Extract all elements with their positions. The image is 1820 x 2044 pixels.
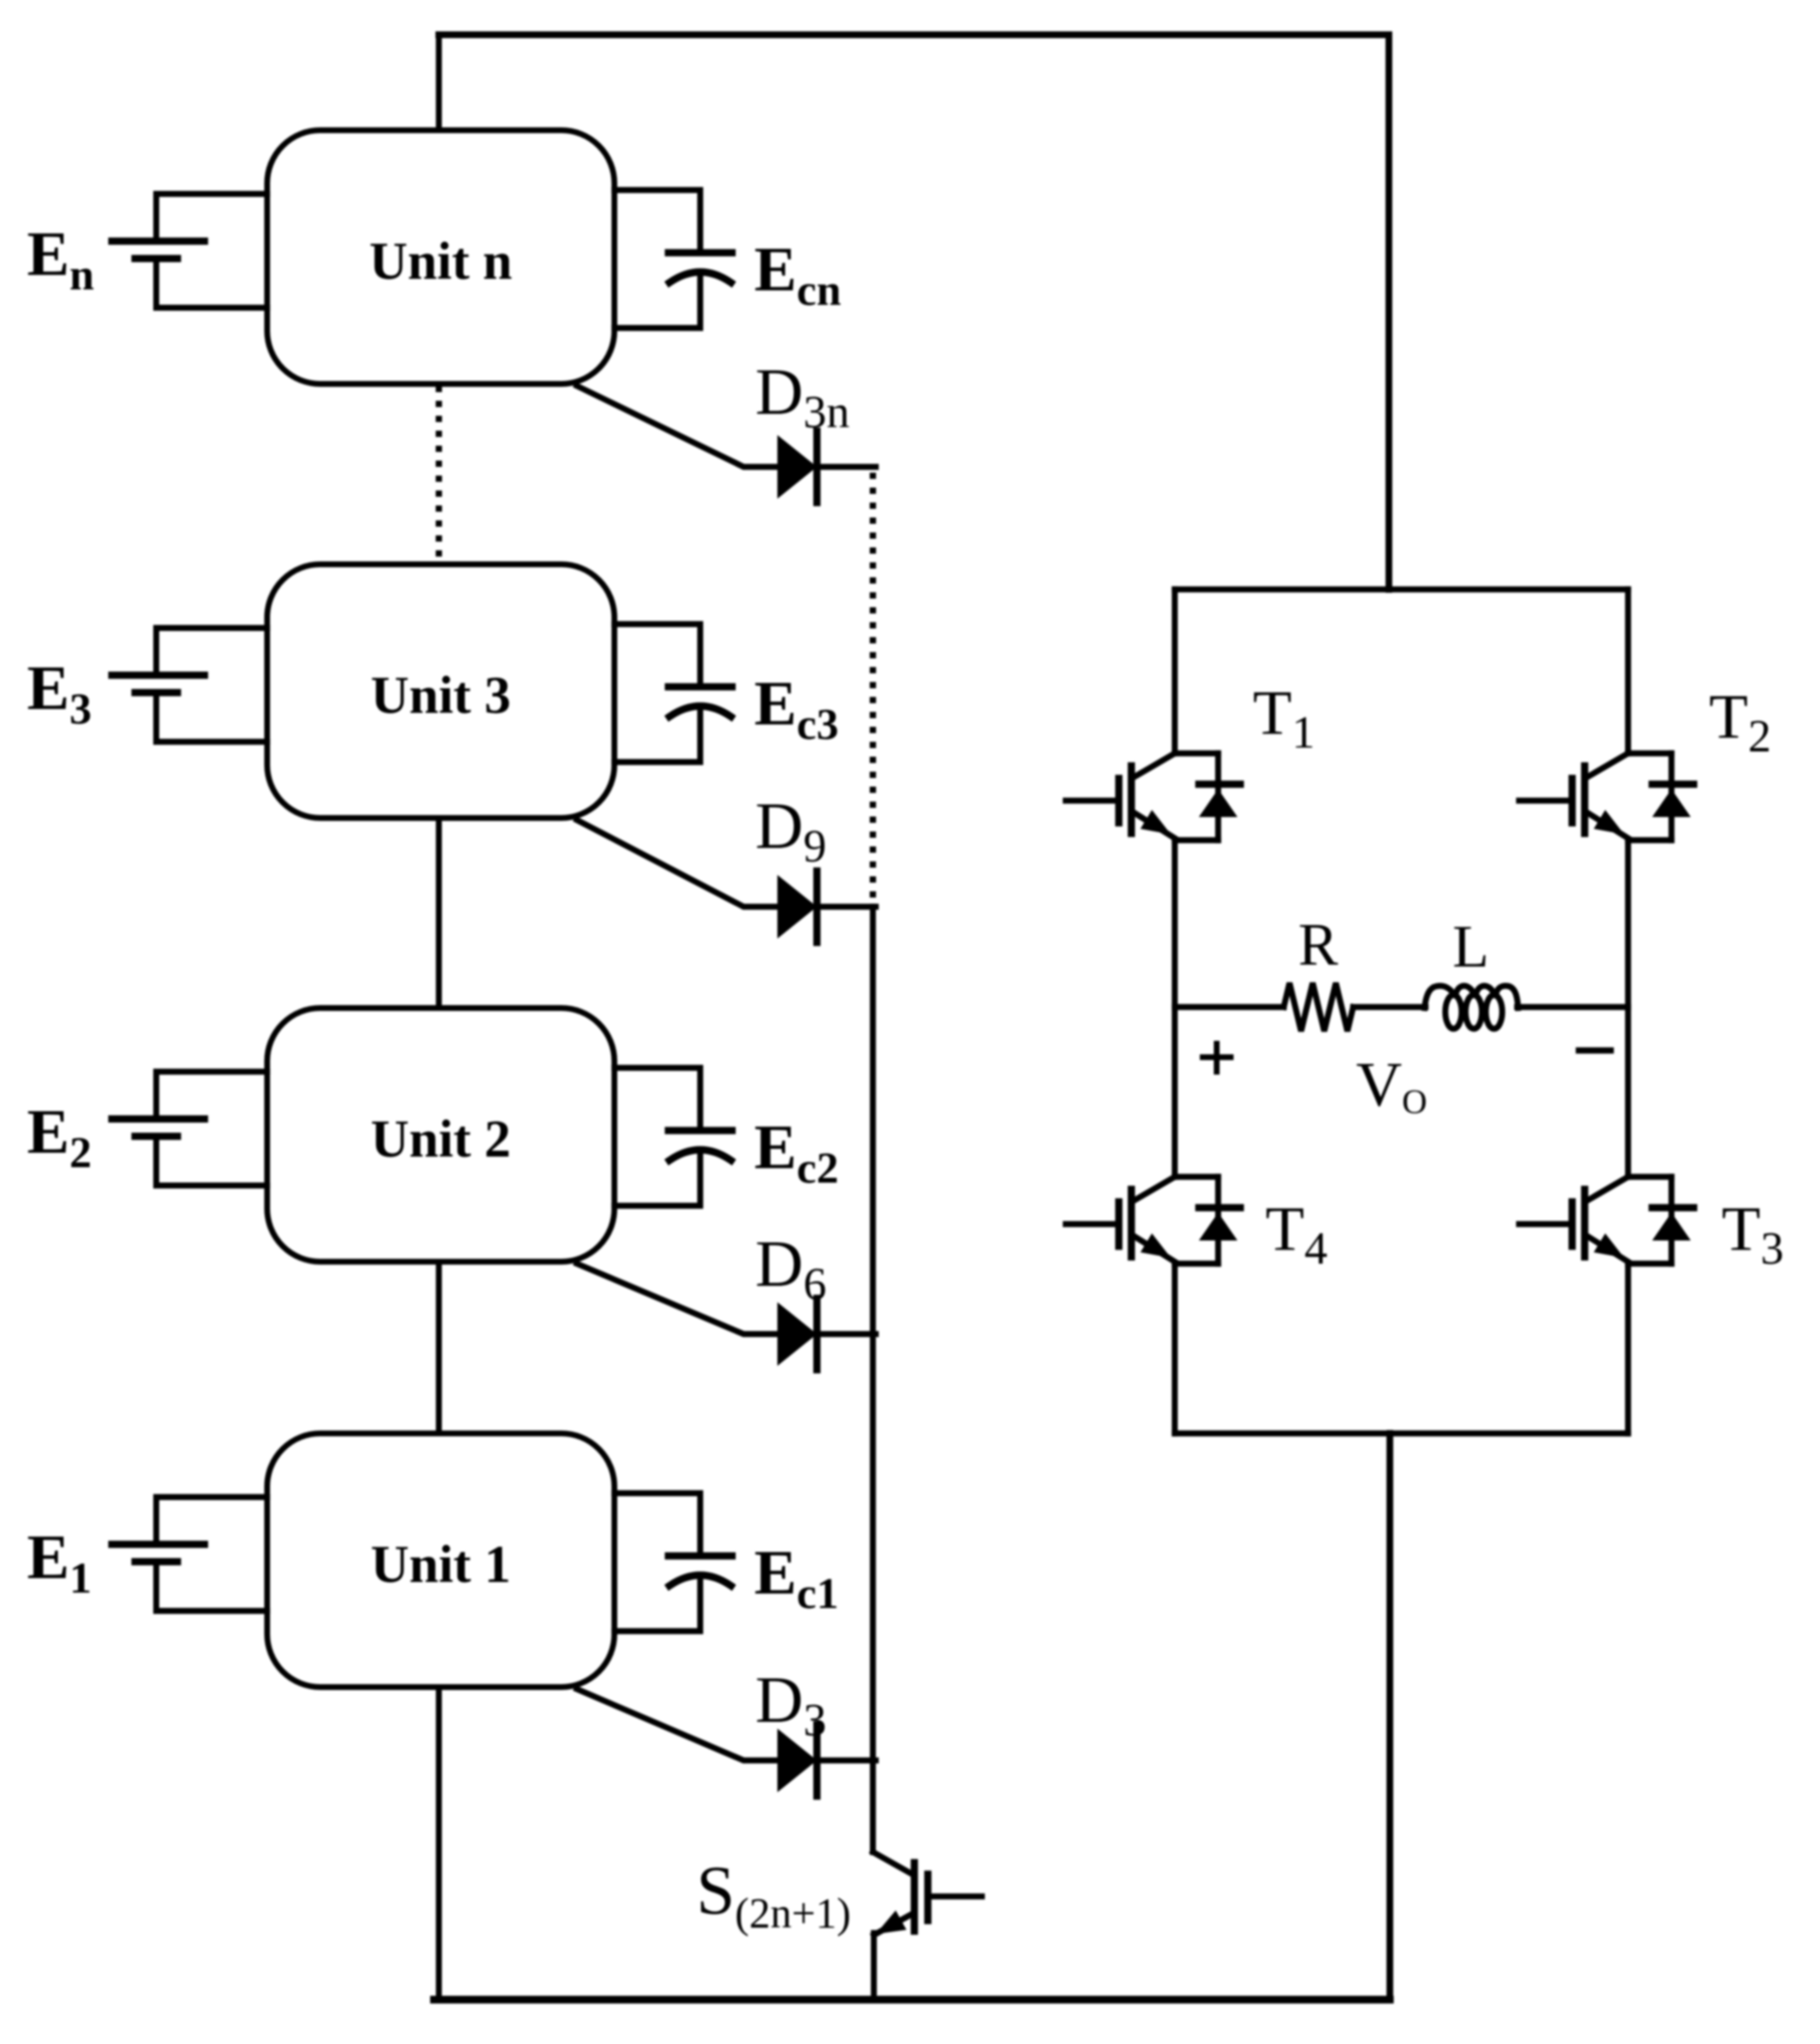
unit block Unit 2 (267, 1008, 614, 1262)
svg-text:Unit 1: Unit 1 (370, 1535, 510, 1594)
wire from top bus down to Unit n (436, 35, 442, 130)
wire right leg lower (1625, 1264, 1631, 1433)
wire output node to resistor (1175, 1004, 1284, 1010)
wire top bus (439, 32, 1389, 39)
wire inductor to right leg (1517, 1004, 1628, 1010)
transistor T1 (IGBT) (1175, 753, 1218, 840)
svg-text:Unit n: Unit n (369, 232, 512, 290)
wire Unit 1 to bottom rail (436, 1687, 442, 2000)
wire between Unit 2 and Unit 1 (436, 1262, 442, 1433)
wire bottom rail (434, 1996, 1390, 2003)
wire from Unit bottom-right corner to diode D9 (577, 820, 777, 907)
diode D9 (777, 875, 817, 939)
wire diode D3n cathode to bus (817, 464, 876, 470)
wire diode D9 cathode to bus (817, 904, 876, 910)
wire resistor to inductor (1353, 1004, 1426, 1010)
freewheel diode of T2 (1669, 753, 1674, 840)
transistor T2 (IGBT) (1628, 753, 1671, 840)
unit block Unit 1 (267, 1433, 614, 1687)
wire bus D9 to S(2n+1) collector (870, 907, 876, 1852)
diode D3n (777, 435, 817, 499)
transistor S(2n+1) (IGBT) (873, 1852, 912, 1874)
wire diode D6 cathode to bus (817, 1331, 876, 1337)
svg-text:Unit 2: Unit 2 (370, 1109, 510, 1168)
capacitor Ec2 (614, 1068, 700, 1206)
wire right leg middle (1625, 840, 1631, 1177)
wire left leg middle (1172, 840, 1178, 1177)
freewheel diode of T1 (1215, 753, 1221, 840)
transistor T4 (IGBT) (1175, 1177, 1218, 1264)
wire H-bridge bottom center stem (1387, 1433, 1394, 2000)
freewheel diode of T3 (1669, 1177, 1674, 1264)
wire from Unit bottom-right corner to diode D6 (577, 1264, 777, 1334)
capacitor Ecn (614, 190, 700, 328)
svg-text:Unit 3: Unit 3 (370, 666, 510, 724)
wire H-bridge top rail (1175, 586, 1628, 592)
wire right leg upper (1625, 589, 1631, 753)
svg-text:L: L (1453, 914, 1489, 980)
unit block Unit 3 (267, 564, 614, 818)
resistor R (1284, 983, 1353, 1031)
inductor L (1425, 986, 1453, 1008)
wire H-bridge bottom rail (1175, 1431, 1628, 1436)
freewheel diode of T4 (1215, 1177, 1221, 1264)
unit block Unit n (267, 130, 614, 384)
capacitor Ec3 (614, 624, 700, 762)
wire dotted bus D3n to D9 (870, 473, 877, 904)
transistor T3 (IGBT) (1628, 1177, 1671, 1264)
battery En (156, 194, 267, 308)
wire right vertical from top bus to H-bridge (1386, 35, 1393, 589)
diode D3 (777, 1729, 817, 1792)
wire diode D3 cathode to bus (817, 1758, 876, 1763)
label - output polarity (1579, 1048, 1611, 1054)
capacitor Ec1 (614, 1493, 700, 1631)
wire from Unit bottom-right corner to diode D3n (577, 386, 777, 467)
svg-text:R: R (1298, 913, 1339, 978)
battery E3 (156, 628, 267, 742)
wire left leg upper (1172, 589, 1178, 753)
wire S(2n+1) emitter to bottom rail (871, 1933, 877, 2000)
label + output polarity (1203, 1044, 1231, 1072)
wire from Unit bottom-right corner to diode D3 (577, 1689, 777, 1760)
wire dotted between Unit n and Unit 3 (436, 386, 443, 564)
battery E2 (156, 1072, 267, 1186)
wire between Unit 3 and Unit 2 (436, 818, 442, 1008)
diode D6 (777, 1302, 817, 1366)
battery E1 (156, 1497, 267, 1611)
wire left leg lower (1172, 1264, 1178, 1433)
